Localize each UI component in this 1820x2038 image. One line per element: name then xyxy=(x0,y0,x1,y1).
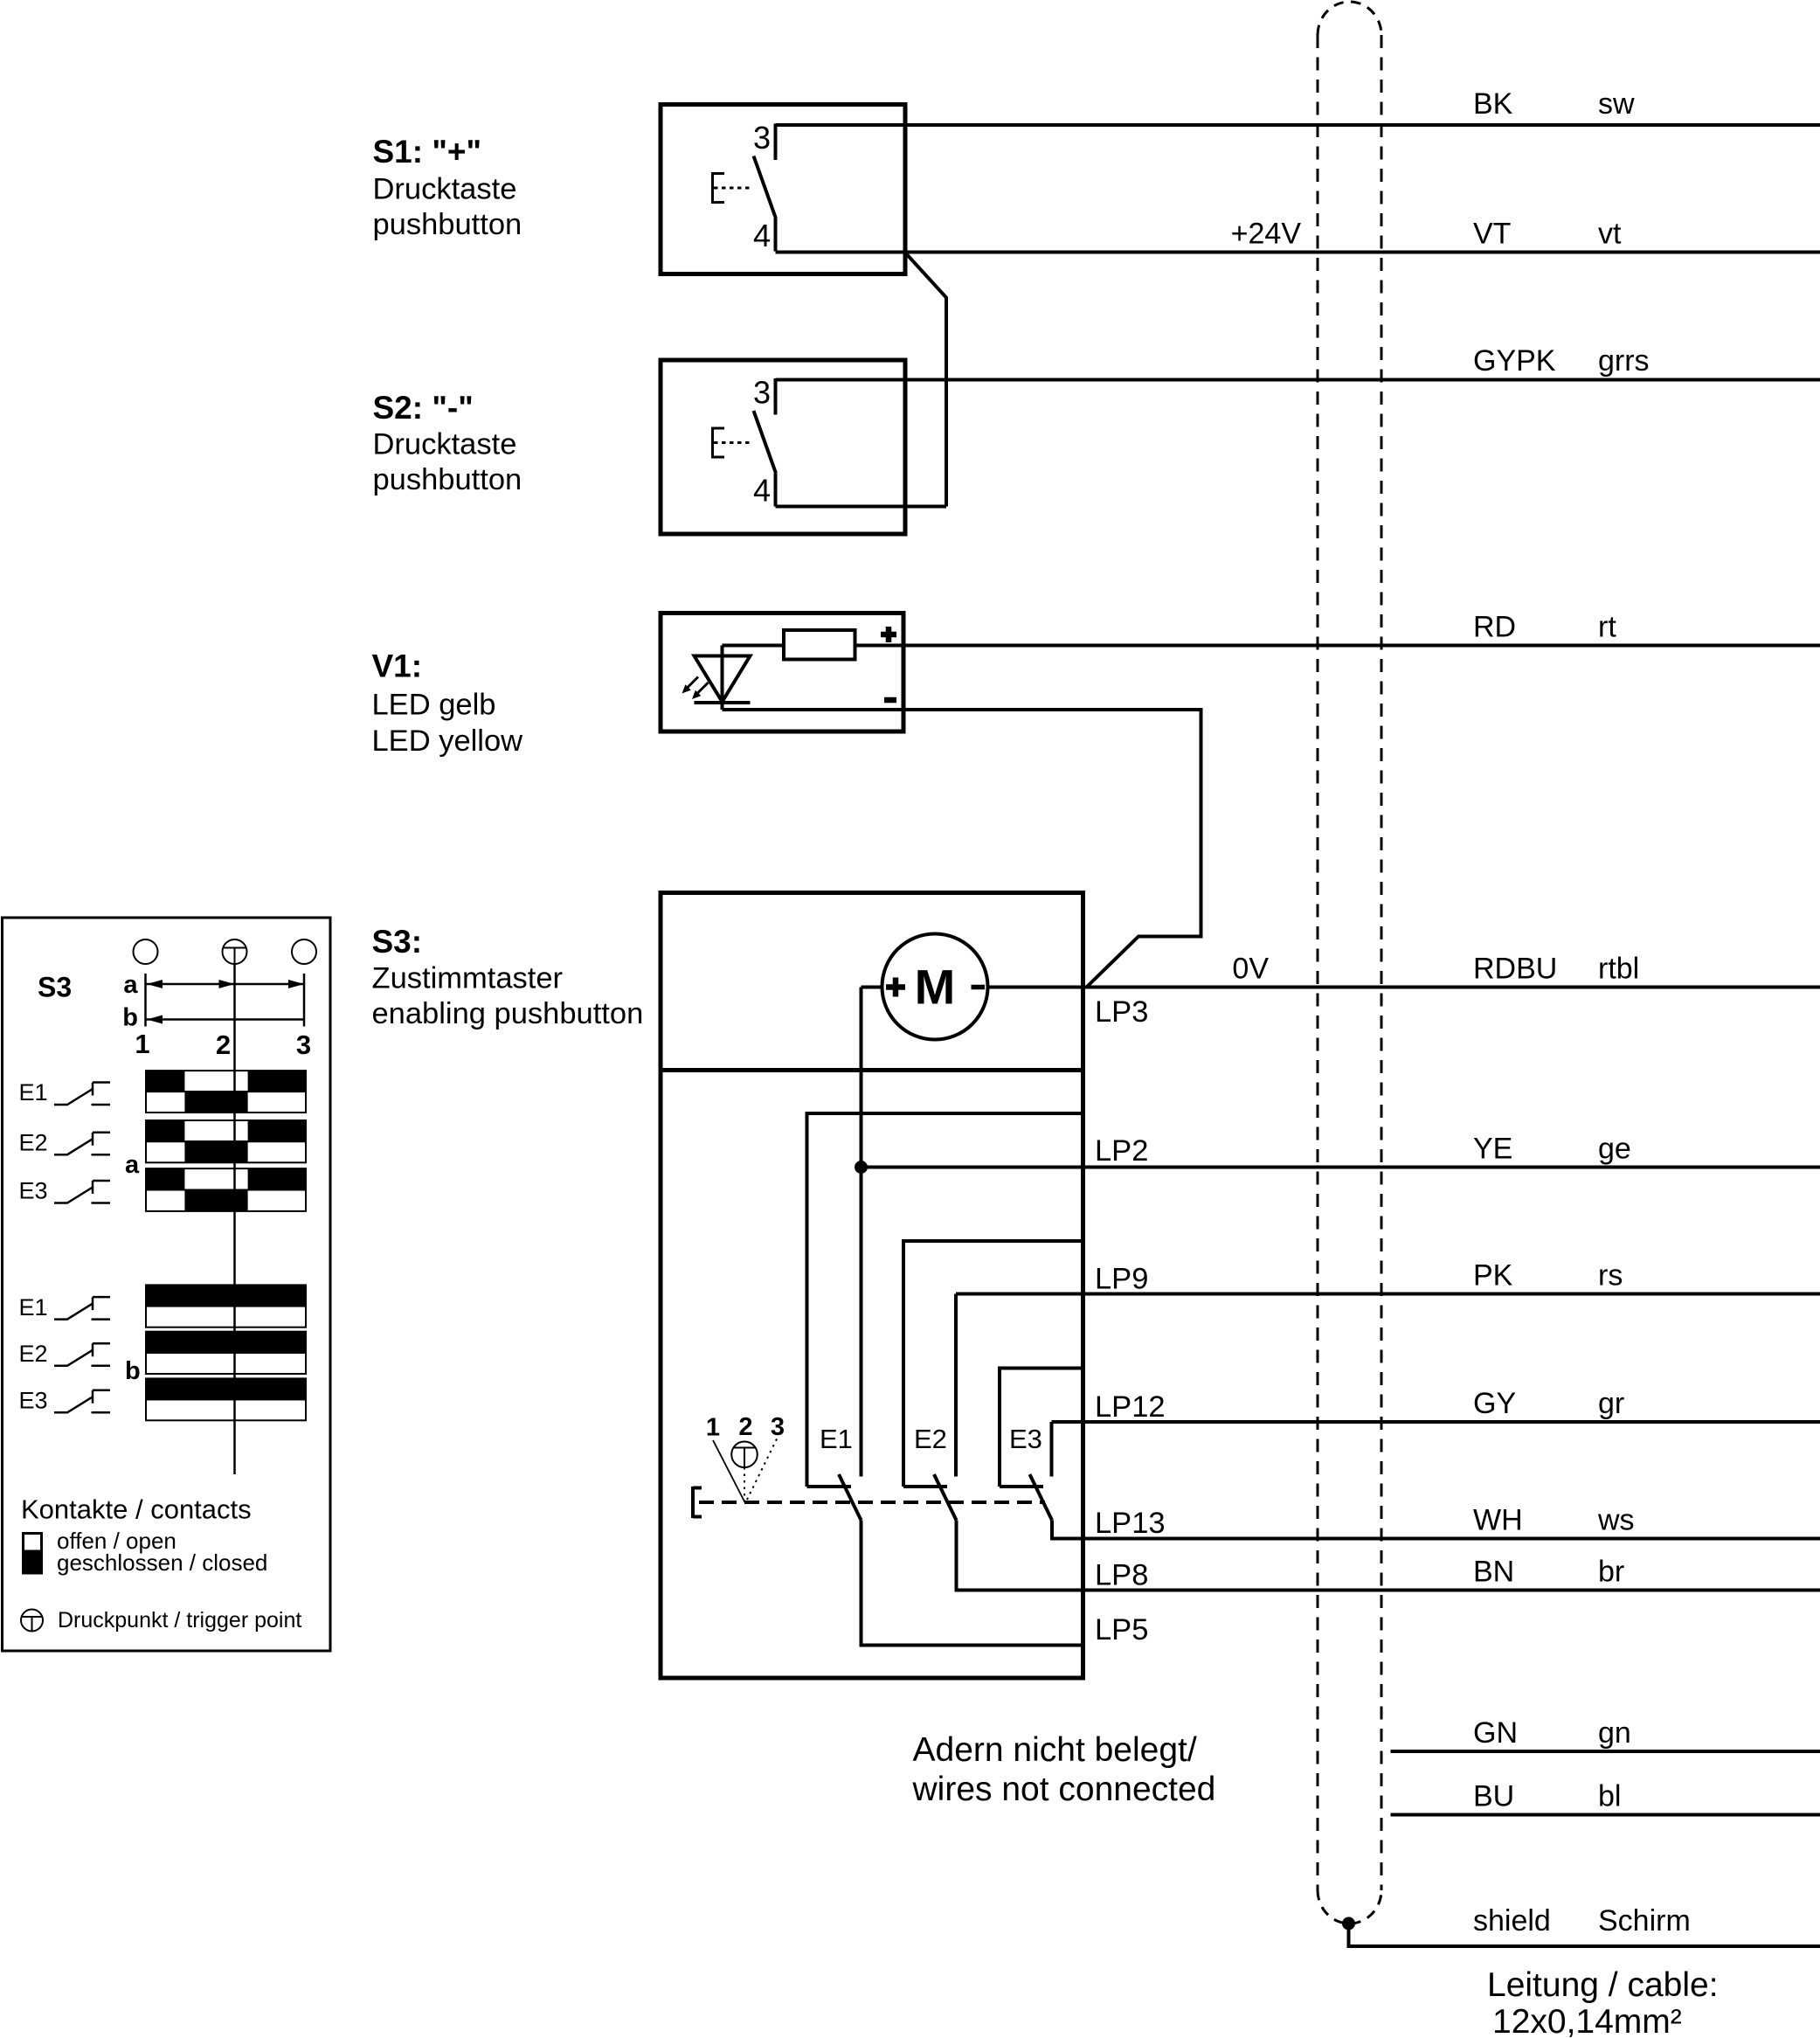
svg-text:BU: BU xyxy=(1473,1780,1514,1813)
svg-text:bl: bl xyxy=(1598,1780,1621,1813)
svg-text:12x0,14mm²: 12x0,14mm² xyxy=(1492,2003,1682,2038)
svg-text:gr: gr xyxy=(1598,1387,1624,1420)
svg-text:4: 4 xyxy=(753,473,771,509)
svg-text:E1: E1 xyxy=(19,1294,48,1321)
svg-text:GYPK: GYPK xyxy=(1473,344,1556,378)
svg-text:E1: E1 xyxy=(820,1424,853,1454)
svg-text:shield: shield xyxy=(1473,1904,1551,1937)
svg-text:E1: E1 xyxy=(19,1079,48,1106)
svg-text:PK: PK xyxy=(1473,1259,1513,1293)
svg-text:2: 2 xyxy=(216,1029,231,1060)
svg-text:LP13: LP13 xyxy=(1095,1507,1166,1540)
svg-text:GY: GY xyxy=(1473,1387,1516,1420)
svg-text:Adern nicht belegt/: Adern nicht belegt/ xyxy=(913,1731,1197,1769)
svg-text:Leitung / cable:: Leitung / cable: xyxy=(1487,1966,1719,2004)
svg-text:b: b xyxy=(122,1004,138,1032)
svg-text:LP8: LP8 xyxy=(1095,1559,1148,1592)
svg-text:3: 3 xyxy=(771,1413,785,1441)
svg-text:sw: sw xyxy=(1598,87,1635,121)
svg-text:3: 3 xyxy=(296,1029,311,1060)
svg-text:GN: GN xyxy=(1473,1716,1518,1750)
svg-text:Druckpunkt / trigger point: Druckpunkt / trigger point xyxy=(58,1608,301,1632)
svg-text:2: 2 xyxy=(738,1413,752,1441)
svg-text:b: b xyxy=(125,1357,141,1385)
svg-text:3: 3 xyxy=(753,120,771,156)
svg-text:a: a xyxy=(125,1151,140,1179)
svg-text:LED gelb: LED gelb xyxy=(372,689,496,722)
svg-text:V1:: V1: xyxy=(372,648,423,684)
svg-text:E3: E3 xyxy=(19,1178,48,1204)
svg-text:BK: BK xyxy=(1473,87,1513,121)
svg-text:E3: E3 xyxy=(1009,1424,1042,1454)
svg-text:Drucktaste: Drucktaste xyxy=(373,428,517,461)
svg-text:1: 1 xyxy=(135,1029,149,1059)
svg-text:rtbl: rtbl xyxy=(1598,953,1639,986)
svg-text:pushbutton: pushbutton xyxy=(373,463,522,496)
svg-text:M: M xyxy=(915,960,956,1015)
svg-text:LED yellow: LED yellow xyxy=(372,724,523,758)
svg-text:4: 4 xyxy=(753,218,771,253)
svg-text:RD: RD xyxy=(1473,611,1516,644)
svg-text:Kontakte / contacts: Kontakte / contacts xyxy=(21,1494,252,1525)
svg-text:3: 3 xyxy=(753,375,771,411)
svg-text:ge: ge xyxy=(1598,1133,1631,1166)
svg-text:1: 1 xyxy=(706,1414,720,1442)
svg-text:E2: E2 xyxy=(914,1424,947,1454)
svg-text:LP9: LP9 xyxy=(1095,1263,1148,1296)
svg-text:Schirm: Schirm xyxy=(1598,1904,1691,1937)
svg-text:+24V: +24V xyxy=(1231,218,1302,251)
svg-text:S1: "+": S1: "+" xyxy=(373,134,482,170)
svg-text:enabling pushbutton: enabling pushbutton xyxy=(372,997,644,1030)
svg-text:S3:: S3: xyxy=(372,924,423,960)
svg-text:LP2: LP2 xyxy=(1095,1134,1148,1168)
svg-text:wires not connected: wires not connected xyxy=(912,1771,1216,1808)
svg-text:0V: 0V xyxy=(1232,953,1269,986)
svg-text:LP5: LP5 xyxy=(1095,1613,1148,1646)
svg-text:BN: BN xyxy=(1473,1556,1514,1589)
svg-text:E2: E2 xyxy=(19,1341,48,1367)
svg-text:Drucktaste: Drucktaste xyxy=(373,173,517,206)
svg-text:S3: S3 xyxy=(38,972,72,1003)
svg-text:grrs: grrs xyxy=(1598,344,1650,378)
svg-text:br: br xyxy=(1598,1556,1624,1589)
svg-text:WH: WH xyxy=(1473,1504,1523,1537)
svg-text:ws: ws xyxy=(1597,1504,1635,1537)
svg-text:E2: E2 xyxy=(19,1129,48,1155)
svg-text:Zustimmtaster: Zustimmtaster xyxy=(372,962,564,995)
svg-text:gn: gn xyxy=(1598,1716,1631,1750)
svg-text:RDBU: RDBU xyxy=(1473,953,1557,986)
svg-text:rt: rt xyxy=(1598,611,1616,644)
svg-text:vt: vt xyxy=(1598,218,1622,251)
svg-text:S2: "-": S2: "-" xyxy=(373,390,474,426)
svg-text:rs: rs xyxy=(1598,1259,1623,1293)
svg-text:pushbutton: pushbutton xyxy=(373,208,522,241)
svg-text:VT: VT xyxy=(1473,218,1511,251)
svg-text:geschlossen / closed: geschlossen / closed xyxy=(57,1549,267,1576)
svg-text:YE: YE xyxy=(1473,1133,1512,1166)
svg-text:E3: E3 xyxy=(19,1388,48,1414)
svg-text:a: a xyxy=(123,971,138,999)
svg-text:LP12: LP12 xyxy=(1095,1390,1166,1424)
svg-text:LP3: LP3 xyxy=(1095,995,1148,1029)
